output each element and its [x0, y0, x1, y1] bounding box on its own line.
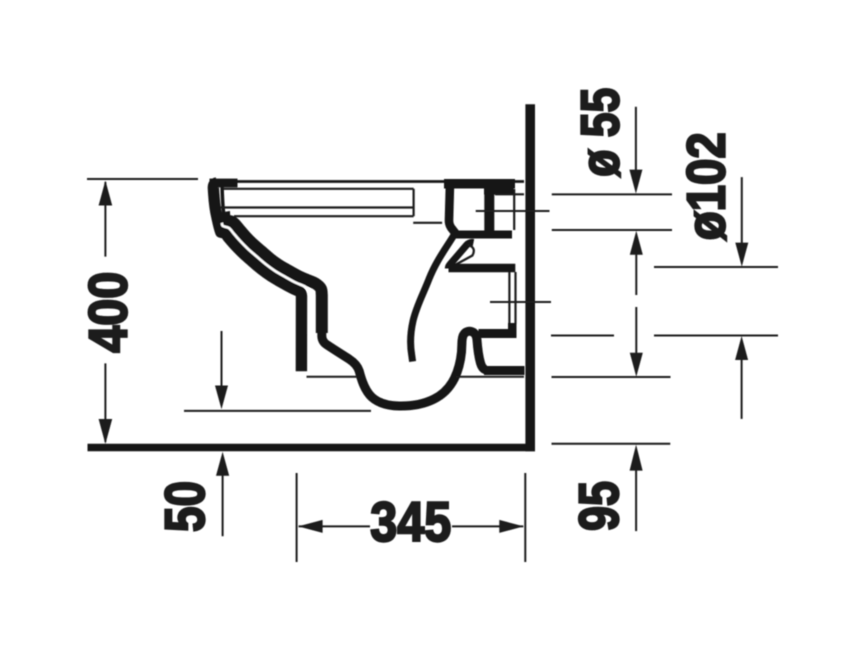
- flush pipe back wall: [484, 188, 494, 233]
- svg-text:400: 400: [78, 272, 138, 353]
- bowl depth reference line: [184, 410, 371, 412]
- dim line o55 top: [552, 193, 672, 195]
- svg-text:95: 95: [567, 481, 630, 531]
- bowl inner front line to lower step: [224, 212, 322, 333]
- outlet face thin edge right: [514, 272, 516, 324]
- lid front edge thickening: [215, 184, 221, 217]
- o102 arrow down: [741, 177, 743, 243]
- dimension 400 line upper segment: [104, 182, 106, 257]
- dim line o102 bottom right: [654, 335, 778, 337]
- dimension 345 line right segment: [452, 525, 523, 527]
- ceramic rim line right segment: [413, 222, 442, 224]
- svg-text:50: 50: [153, 481, 216, 532]
- trap weir curve: [411, 233, 456, 362]
- seat right edge: [413, 189, 415, 216]
- outlet centerline: [490, 301, 551, 303]
- flush pipe right thin edge: [513, 189, 515, 230]
- rim inner edge: [222, 185, 224, 214]
- dimension 345 extension line right: [524, 473, 526, 562]
- ledge bottom line left of wall: [307, 376, 358, 378]
- o102 arrow up: [735, 336, 748, 360]
- bowl depth arrow: [221, 331, 223, 386]
- toilet outer shell front profile: [213, 183, 301, 371]
- outlet top band: [449, 264, 516, 272]
- lower bowl step and trap U profile: [322, 328, 486, 406]
- ceramic rim line under seat: [234, 215, 414, 217]
- svg-text:345: 345: [370, 490, 451, 553]
- dimension 95 arrow: [630, 445, 643, 471]
- outlet face thin edge left: [508, 272, 510, 325]
- wall section line: [525, 104, 535, 451]
- top band over flush area: [444, 179, 515, 189]
- flush pipe centerline: [476, 210, 550, 212]
- o55 arrow down: [635, 107, 637, 170]
- gap arrow down at ledge line: [630, 353, 643, 377]
- bowl back bottom band: [453, 231, 512, 239]
- dimension 400 arrow up: [99, 181, 113, 206]
- dimension 50 arrow: [222, 475, 224, 536]
- gap arrow up at o55 bottom: [630, 231, 643, 255]
- white sliver between shell curves: [222, 223, 311, 295]
- seat top line: [224, 188, 414, 190]
- flush channel inner elbow line: [452, 245, 474, 267]
- outlet bottom band step: [508, 323, 517, 338]
- dimension 400 arrow down: [99, 419, 113, 444]
- toilet top surface line: [212, 180, 524, 183]
- lid front thick section: [210, 179, 238, 188]
- dimension 400 line lower segment: [104, 363, 106, 442]
- dimension 345 arrow left: [298, 520, 322, 533]
- dimension 345 extension line left: [296, 473, 298, 562]
- dimension 345 line left segment: [299, 525, 370, 527]
- seat bottom line: [220, 206, 414, 208]
- floor line: [88, 444, 536, 452]
- svg-text:ø102: ø102: [677, 132, 737, 240]
- flush pipe top line: [495, 193, 524, 195]
- dimension 400 extension line: [87, 178, 198, 180]
- floor extension line: [552, 443, 671, 445]
- svg-text:ø 55: ø 55: [571, 88, 631, 177]
- dim line o102 bottom left: [551, 335, 614, 337]
- mounting ledge band: [484, 366, 525, 375]
- dimension 345 arrow right: [499, 520, 523, 533]
- flush channel outer diagonal: [448, 242, 473, 268]
- outlet bottom band: [479, 329, 513, 338]
- dim line o102 top: [654, 266, 778, 268]
- seat hinge support: [449, 183, 456, 234]
- dim line ledge bottom: [552, 376, 671, 378]
- dim line o55 bottom: [552, 229, 672, 231]
